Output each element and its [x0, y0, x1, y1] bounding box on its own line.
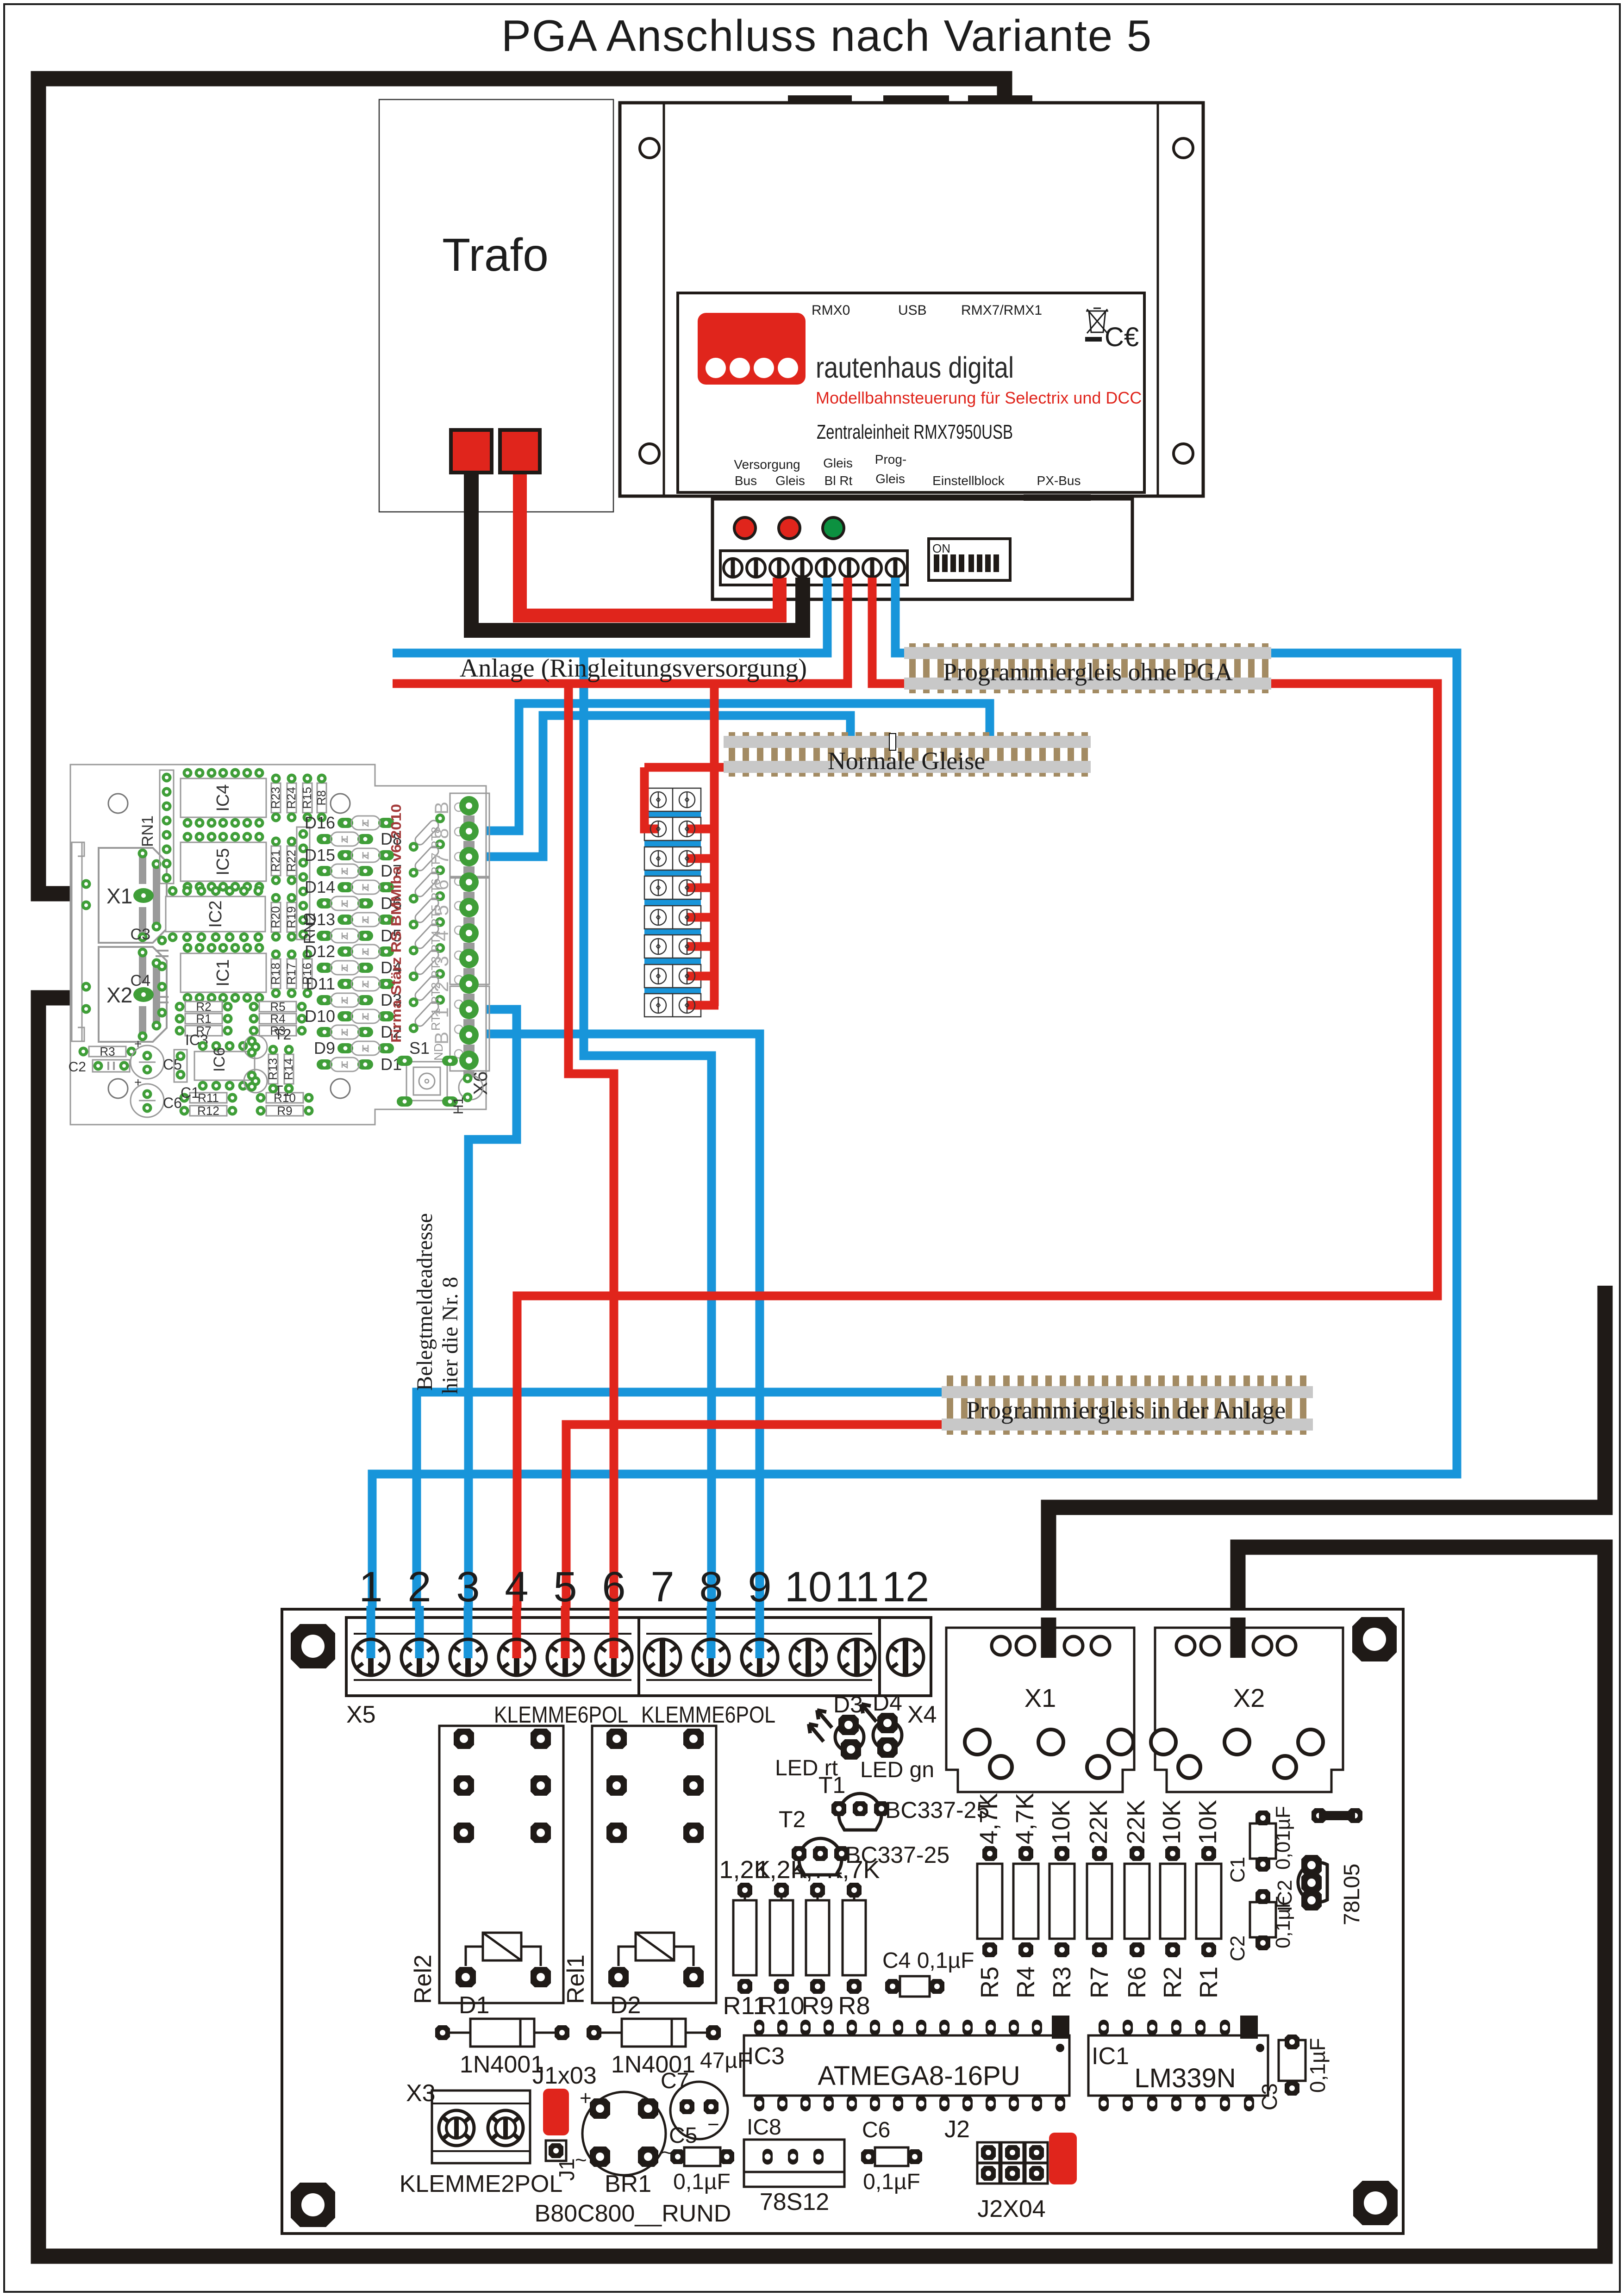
- LED green: [823, 517, 844, 539]
- svg-text:Gleis: Gleis: [775, 473, 805, 488]
- svg-text:C1: C1: [1226, 1857, 1249, 1883]
- capacitor C2: [69, 1059, 130, 1075]
- resistor R9: [792, 1856, 843, 2020]
- blue wire: detector pad B to Normale Gleise right section: [469, 703, 990, 831]
- svg-text:+: +: [134, 1075, 142, 1089]
- IC IC5: [181, 832, 266, 892]
- svg-text:8: 8: [699, 1563, 723, 1611]
- WEEE bin icon: [1086, 308, 1108, 333]
- svg-text:X2: X2: [1233, 1683, 1265, 1712]
- svg-text:C4: C4: [131, 972, 150, 989]
- svg-text:IC1: IC1: [1092, 2043, 1129, 2070]
- label plate: [678, 293, 1144, 492]
- capacitor C6: [131, 1075, 182, 1117]
- transistor T2 BC337-25: [779, 1806, 949, 1875]
- diode D12: [305, 942, 394, 961]
- svg-text:R24: R24: [284, 787, 298, 809]
- IC IC3: [174, 1032, 208, 1082]
- svg-text:LM339N: LM339N: [1134, 2063, 1236, 2093]
- wire tips into X5 terminals: [367, 1606, 375, 1658]
- svg-text:J2: J2: [944, 2116, 970, 2143]
- blue wire: detector pad 10 to Normale Gleise left section: [469, 716, 850, 857]
- svg-text:R8: R8: [838, 1992, 870, 2020]
- svg-text:T1: T1: [818, 1772, 845, 1798]
- DIP switch block: [929, 539, 1010, 580]
- svg-text:C3: C3: [1257, 2083, 1281, 2110]
- svg-text:C6: C6: [163, 1095, 182, 1111]
- svg-text:78L05: 78L05: [1340, 1864, 1364, 1925]
- red wire: Anlage ring branch to terminal 6 of PGA board: [568, 684, 614, 1657]
- svg-text:C5: C5: [669, 2123, 697, 2148]
- capacitor C2: [1226, 1889, 1294, 1961]
- svg-text:R8: R8: [314, 790, 328, 805]
- svg-text:3: 3: [456, 1563, 480, 1611]
- svg-text:IC6: IC6: [211, 1047, 228, 1072]
- diode D10: [305, 1007, 394, 1026]
- svg-text:22K: 22K: [1085, 1800, 1112, 1844]
- resistor R10: [756, 1856, 807, 2020]
- board outline: [282, 1609, 1403, 2234]
- mounting hole: [291, 2183, 335, 2227]
- svg-text:D11: D11: [306, 974, 335, 993]
- svg-text:R9: R9: [277, 1104, 292, 1118]
- svg-text:R11: R11: [198, 1091, 219, 1105]
- resistor network RN2: [297, 827, 319, 944]
- PGA relay board: [282, 1609, 1403, 2234]
- capacitor C5: [131, 1037, 182, 1079]
- resistor R8: [314, 774, 328, 822]
- svg-text:0,1µF: 0,1µF: [673, 2170, 731, 2194]
- resistor R13: [266, 1045, 280, 1094]
- svg-text:Belegtmeldeadresse: Belegtmeldeadresse: [412, 1213, 437, 1391]
- svg-text:LED gn: LED gn: [860, 1758, 934, 1782]
- svg-text:Gleis: Gleis: [823, 456, 853, 470]
- svg-text:Versorgung: Versorgung: [734, 457, 800, 472]
- svg-text:1: 1: [359, 1563, 382, 1611]
- svg-text:Bl Rt: Bl Rt: [824, 473, 853, 488]
- svg-text:5: 5: [553, 1563, 577, 1611]
- svg-text:47µF: 47µF: [700, 2048, 751, 2073]
- svg-text:5: 5: [431, 905, 452, 915]
- capacitor C6: [861, 2118, 922, 2194]
- svg-text:R9: R9: [801, 1992, 833, 2020]
- black wire tip into X1: [1041, 1618, 1056, 1658]
- rautenhaus logo: [698, 313, 806, 385]
- IC3 ATMEGA8-16PU: [744, 2016, 1069, 2111]
- red stub to strip row 2: [687, 825, 718, 834]
- diode D3: [317, 990, 402, 1009]
- svg-text:R2: R2: [1159, 1966, 1187, 1998]
- X5/X4 screw terminals: [353, 1639, 924, 1675]
- resistor R16: [300, 950, 314, 998]
- svg-text:D16: D16: [305, 813, 335, 832]
- diode D1 1N4001: [435, 1992, 569, 2078]
- svg-text:D2: D2: [610, 1992, 641, 2019]
- svg-text:B: B: [431, 1032, 452, 1045]
- resistor R18: [269, 950, 282, 998]
- red wire: Anlage ring to Normale Gleise and strip feeder: [644, 684, 731, 1006]
- svg-text:7: 7: [431, 853, 452, 864]
- svg-text:RMX0: RMX0: [812, 303, 850, 318]
- LED red 1: [734, 517, 756, 539]
- svg-text:hier die Nr. 8: hier die Nr. 8: [438, 1277, 462, 1394]
- IC IC4: [181, 768, 266, 828]
- svg-text:IC8: IC8: [747, 2115, 781, 2140]
- svg-text:Firma Stärz RS BMMiba v6-201: Firma Stärz RS BMMiba v6-2010: [388, 804, 404, 1043]
- svg-text:X3: X3: [406, 2080, 436, 2107]
- thick black bus wire: X2 of detector, around page to X2 of PGA board: [38, 998, 1605, 2256]
- svg-text:IC2: IC2: [206, 900, 225, 927]
- transistor T2: [244, 1026, 291, 1058]
- svg-text:D15: D15: [305, 846, 335, 865]
- resistor R11: [719, 1856, 770, 2020]
- thick black bus wire: X1 of PGA board up and right: [1049, 1286, 1605, 1652]
- red stub to strip row 4: [687, 884, 718, 892]
- resistor R7: [1085, 1800, 1113, 1998]
- X3 KLEMME2POL: [400, 2080, 563, 2197]
- diode D16: [305, 813, 394, 832]
- svg-text:D12: D12: [305, 942, 335, 961]
- diode D1: [317, 1055, 402, 1074]
- thick black bus wire: top ring to X1 of detector: [38, 79, 1005, 894]
- blue wire: terminal 8 of unit to Programmiergleis ohne PGA: [895, 578, 912, 653]
- capacitor C7 47uF: [661, 2048, 751, 2139]
- red wire: terminal 5 to Programmiergleis in der Anlage: [566, 1425, 949, 1657]
- svg-text:C1: C1: [181, 1084, 200, 1101]
- svg-text:D3: D3: [833, 1692, 863, 1717]
- resistor R3: [249, 1024, 307, 1038]
- red stub to strip row 5: [687, 913, 718, 922]
- diode D2: [317, 1022, 402, 1041]
- mounting hole: [291, 1624, 335, 1668]
- svg-text:D10: D10: [305, 1007, 335, 1026]
- svg-text:8: 8: [431, 828, 452, 839]
- svg-text:KLEMME6POL: KLEMME6POL: [494, 1702, 628, 1728]
- mounting hole: [331, 794, 350, 813]
- svg-text:IC1: IC1: [213, 959, 233, 986]
- svg-text:R23: R23: [269, 787, 282, 809]
- transistor T1: [244, 1070, 291, 1099]
- interface box with LEDs and terminals: [712, 494, 1132, 599]
- svg-text:T2: T2: [779, 1806, 806, 1832]
- svg-text:1: 1: [431, 1007, 452, 1018]
- blue wire: Programmiergleis ohne PGA to terminal 1 of PGA board: [372, 653, 1457, 1657]
- svg-text:Rel2: Rel2: [410, 1954, 437, 2004]
- svg-text:ON: ON: [932, 541, 950, 555]
- svg-text:PX-Bus: PX-Bus: [1037, 473, 1081, 488]
- trafo terminal red: [500, 430, 540, 473]
- svg-text:KLEMME6POL: KLEMME6POL: [641, 1702, 775, 1728]
- resistor network RN1: [139, 770, 174, 884]
- IC IC6: [194, 1041, 255, 1091]
- jumper J1x03: [532, 2062, 597, 2181]
- resistor R3: [1047, 1800, 1076, 1998]
- resistor RT7: [407, 837, 447, 879]
- svg-text:+: +: [580, 2087, 592, 2109]
- blue wire: Anlage ring from terminal 5: [393, 578, 827, 653]
- terminal rings overlay: [353, 1639, 389, 1675]
- resistor R5: [975, 1793, 1004, 1998]
- svg-text:C2: C2: [69, 1059, 86, 1075]
- connector X2 (PGA board): [1151, 1628, 1343, 1792]
- svg-text:R13: R13: [266, 1058, 280, 1080]
- svg-text:~: ~: [575, 2149, 587, 2172]
- mounting hole: [1352, 1617, 1397, 1661]
- diode D15: [305, 846, 394, 865]
- interface terminal screws: [724, 559, 905, 577]
- svg-text:RMX7/RMX1: RMX7/RMX1: [961, 303, 1042, 318]
- track Programmiergleis in der Anlage: [942, 1375, 1313, 1435]
- svg-text:Modellbahnsteuerung für Select: Modellbahnsteuerung für Selectrix und DC…: [816, 388, 1142, 407]
- rear connector tab 1: [788, 95, 852, 103]
- svg-text:11: 11: [835, 1563, 879, 1611]
- terminal strip X5/X4: [346, 1618, 931, 1696]
- capacitor C1: [1226, 1806, 1294, 1883]
- red stub to strip row 3: [687, 854, 718, 863]
- Belegtmelder PCB Firma Staerz BMMiba: [69, 765, 491, 1125]
- svg-text:X5: X5: [346, 1701, 376, 1728]
- svg-text:S1: S1: [409, 1039, 430, 1058]
- connector J2X04: [944, 2116, 1077, 2222]
- svg-text:X6: X6: [469, 1071, 491, 1095]
- red wire: Programmiergleis ohne PGA to terminal 4 of PGA board: [517, 684, 1437, 1657]
- rear connector tab 3: [968, 95, 1032, 103]
- capacitor C4: [882, 1948, 974, 1997]
- resistor R17: [284, 950, 298, 998]
- mounting hole: [108, 794, 128, 813]
- svg-text:IC5: IC5: [213, 848, 233, 875]
- strip screws: [650, 792, 695, 1013]
- svg-text:J2X04: J2X04: [977, 2196, 1045, 2222]
- resistor R1: [175, 1012, 233, 1026]
- track Programmiergleis ohne PGA: [904, 643, 1271, 693]
- svg-text:D13: D13: [305, 910, 335, 929]
- resistor R24: [284, 774, 298, 822]
- IC8 78S12: [744, 2115, 844, 2215]
- blue wire: Anlage ring branch to terminal 8 of PGA board: [584, 653, 712, 1657]
- resistor R12: [180, 1104, 237, 1118]
- svg-text:12: 12: [882, 1563, 929, 1611]
- svg-text:0,1µF: 0,1µF: [863, 2170, 920, 2194]
- svg-text:10K: 10K: [1194, 1800, 1222, 1844]
- svg-text:R4: R4: [1012, 1966, 1040, 1998]
- LED red 2: [779, 517, 800, 539]
- svg-text:R7: R7: [1086, 1966, 1113, 1998]
- svg-text:4: 4: [431, 930, 452, 941]
- resistor R1: [1194, 1800, 1223, 1998]
- resistor RT6: [407, 863, 447, 905]
- svg-text:D9: D9: [314, 1039, 335, 1058]
- svg-text:R10: R10: [758, 1992, 804, 2020]
- resistor R20: [269, 893, 282, 942]
- terminal numbers 1-12: [359, 1563, 929, 1611]
- mounting hole: [1353, 2181, 1398, 2225]
- resistor R10: [256, 1091, 314, 1105]
- svg-text:J1x03: J1x03: [532, 2062, 597, 2089]
- svg-text:X4: X4: [907, 1701, 937, 1728]
- capacitor C5: [669, 2123, 734, 2194]
- svg-text:R14: R14: [281, 1058, 295, 1080]
- resistor R7: [175, 1024, 233, 1038]
- svg-text:rautenhaus digital: rautenhaus digital: [816, 351, 1014, 384]
- central unit Zentraleinheit RMX7950USB: [620, 95, 1203, 496]
- svg-text:H1: H1: [451, 1097, 466, 1114]
- diode D2 1N4001: [587, 1992, 721, 2078]
- switch S1: [397, 1039, 458, 1107]
- svg-text:R6: R6: [1123, 1966, 1151, 1998]
- diode D7: [317, 861, 402, 880]
- svg-text:7: 7: [650, 1563, 674, 1611]
- svg-text:R5: R5: [976, 1966, 1004, 1998]
- svg-text:KLEMME2POL: KLEMME2POL: [400, 2171, 563, 2197]
- svg-text:RN1: RN1: [139, 815, 156, 847]
- svg-text:Programmiergleis ohne PGA: Programmiergleis ohne PGA: [943, 658, 1233, 686]
- resistor R23: [269, 774, 282, 822]
- svg-text:C3: C3: [131, 926, 150, 943]
- resistor RT8: [407, 811, 447, 853]
- svg-text:6: 6: [602, 1563, 625, 1611]
- svg-text:BC337-25: BC337-25: [885, 1797, 989, 1823]
- svg-text:C4 0,1µF: C4 0,1µF: [882, 1948, 974, 1973]
- svg-text:1N4001: 1N4001: [460, 2051, 544, 2078]
- IC IC2: [166, 886, 265, 942]
- blue wire: detector pad 2 to terminal 9 of PGA board: [469, 1034, 760, 1657]
- svg-text:2: 2: [407, 1563, 431, 1611]
- relay Rel2: [410, 1726, 563, 2004]
- svg-text:0,01µF: 0,01µF: [1272, 1806, 1294, 1870]
- svg-text:Trafo: Trafo: [442, 229, 549, 281]
- capacitor C3: [1257, 2035, 1330, 2110]
- connector X1 (PGA board): [946, 1628, 1134, 1792]
- connector X1: [99, 848, 167, 943]
- resistor R4: [249, 1012, 307, 1026]
- svg-text:C6: C6: [862, 2118, 890, 2142]
- svg-text:X1: X1: [1024, 1683, 1056, 1712]
- middle distribution terminal strip: [644, 788, 701, 1017]
- svg-text:10K: 10K: [1047, 1800, 1075, 1844]
- svg-text:R20: R20: [269, 906, 282, 928]
- terminal block 8pol: [720, 551, 907, 585]
- capacitor C4: [131, 972, 169, 1018]
- diode D8: [317, 829, 402, 848]
- svg-text:R3: R3: [100, 1045, 115, 1058]
- red wire: Anlage ring from terminal 6: [393, 578, 848, 684]
- LED D4: [860, 1690, 934, 1782]
- svg-text:D1: D1: [459, 1992, 489, 2019]
- svg-text:4: 4: [505, 1563, 528, 1611]
- resistor R19: [284, 893, 298, 942]
- svg-text:78S12: 78S12: [760, 2189, 829, 2215]
- IC1 LM339N: [1088, 2016, 1268, 2111]
- red stub to strip row 7: [687, 972, 718, 981]
- capacitor C3: [131, 926, 169, 971]
- diode D13: [305, 910, 394, 929]
- blue wire: terminal 2 to Programmiergleis in der Anlage: [417, 1392, 949, 1657]
- svg-text:D4: D4: [873, 1690, 902, 1716]
- svg-text:IC3: IC3: [747, 2043, 785, 2070]
- connector number column: [431, 802, 452, 1045]
- svg-text:C€: C€: [1105, 322, 1139, 352]
- connector X2: [99, 947, 167, 1042]
- resistor R15: [300, 774, 314, 822]
- resistor RT5: [407, 889, 447, 931]
- svg-text:R3: R3: [1048, 1966, 1076, 1998]
- svg-text:Anlage (Ringleitungsversorgung: Anlage (Ringleitungsversorgung): [460, 654, 807, 683]
- hole H1: [451, 1074, 483, 1115]
- svg-text:Zentraleinheit RMX7950USB: Zentraleinheit RMX7950USB: [817, 421, 1013, 443]
- svg-text:6: 6: [431, 879, 452, 890]
- svg-text:2: 2: [431, 981, 452, 992]
- svg-text:BR1: BR1: [605, 2171, 651, 2197]
- svg-text:R15: R15: [300, 787, 314, 809]
- resistor RT2: [407, 967, 447, 1009]
- svg-text:BC337-25: BC337-25: [845, 1842, 949, 1868]
- svg-text:IC2: IC2: [1274, 1880, 1296, 1911]
- rear connector tab 2: [883, 95, 949, 103]
- svg-text:R12: R12: [197, 1104, 219, 1118]
- resistor R22: [284, 837, 298, 885]
- Belegtmeldeadresse label: [412, 1213, 462, 1394]
- blue wire: detector pad 3 to terminal 3 of PGA board: [468, 1009, 517, 1657]
- diode D9: [314, 1039, 394, 1058]
- svg-text:+: +: [134, 1037, 142, 1051]
- resistor RT1: [407, 993, 447, 1035]
- svg-text:−: −: [707, 2113, 719, 2136]
- svg-text:3: 3: [431, 956, 452, 966]
- IC IC1: [181, 943, 266, 1003]
- Trafo box: [379, 100, 613, 512]
- IC2 78L05: [1274, 1855, 1364, 1925]
- resistor R6: [1122, 1800, 1151, 1998]
- svg-text:B: B: [431, 802, 452, 815]
- trafo terminal black: [451, 430, 492, 473]
- svg-text:B80C800__RUND: B80C800__RUND: [535, 2200, 731, 2227]
- wire: trafo black to terminal 4: [471, 463, 803, 630]
- svg-text:C2: C2: [1226, 1935, 1249, 1961]
- svg-text:R17: R17: [284, 963, 298, 985]
- resistor R3: [79, 1045, 137, 1058]
- LED D3: [775, 1692, 864, 1780]
- svg-text:T2: T2: [274, 1026, 291, 1043]
- relay Rel1: [562, 1726, 716, 2004]
- diode D6: [317, 894, 402, 913]
- svg-text:R18: R18: [269, 963, 282, 985]
- resistor RT3: [407, 941, 447, 983]
- svg-text:10: 10: [785, 1563, 832, 1611]
- svg-text:ATMEGA8-16PU: ATMEGA8-16PU: [818, 2061, 1020, 2091]
- red stub to strip row 8: [687, 1001, 718, 1010]
- resistor R14: [281, 1045, 295, 1094]
- svg-text:PGA Anschluss nach Variante 5: PGA Anschluss nach Variante 5: [501, 11, 1152, 61]
- resistor R11: [180, 1091, 237, 1105]
- svg-text:D14: D14: [305, 877, 335, 896]
- detector board outline: [70, 765, 486, 1125]
- red stub to strip row 6: [687, 942, 718, 951]
- mounting hole: [108, 1079, 128, 1098]
- svg-text:Bus: Bus: [735, 473, 757, 488]
- svg-text:Gleis: Gleis: [875, 472, 905, 486]
- resistor R4: [1011, 1793, 1040, 1998]
- svg-text:R1: R1: [1195, 1966, 1223, 1998]
- connector X6: [450, 793, 491, 1095]
- svg-text:0,1µF: 0,1µF: [1305, 2038, 1330, 2093]
- resistor RT4: [407, 915, 447, 957]
- wire: trafo red to terminal 3: [520, 463, 780, 616]
- svg-text:USB: USB: [898, 303, 927, 318]
- black wire tip into X2: [1230, 1618, 1246, 1658]
- resistor R9: [256, 1104, 314, 1118]
- svg-text:R21: R21: [269, 850, 282, 872]
